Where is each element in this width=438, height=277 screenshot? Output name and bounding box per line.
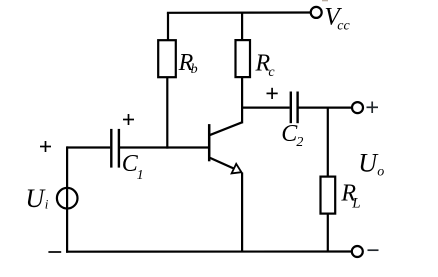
- wire input left from source to C1: [67, 146, 110, 148]
- plus sign C2: [267, 88, 278, 99]
- svg-text:cc: cc: [337, 18, 350, 33]
- wire bottom rail: [66, 250, 352, 252]
- transistor Q1 base bar: [208, 124, 211, 161]
- label Vcc: [324, 3, 350, 33]
- wire Rc top: [241, 13, 243, 40]
- svg-text:b: b: [191, 62, 198, 77]
- wire Rb top: [167, 13, 169, 40]
- transistor Q1 collector diagonal: [209, 122, 242, 135]
- resistor RL: [321, 177, 336, 214]
- label Ui: [25, 184, 48, 213]
- wire RL bottom: [327, 214, 329, 252]
- wire collector node to C2: [242, 106, 290, 108]
- minus sign bottom right: [368, 249, 379, 251]
- svg-text:U: U: [358, 148, 379, 177]
- wire Rc bottom to collector: [241, 77, 243, 123]
- wire RL branch down: [327, 108, 329, 177]
- wire emitter down: [241, 173, 243, 252]
- plus sign output: [367, 102, 379, 114]
- transistor Q1 emitter arrowhead: [232, 164, 242, 174]
- capacitor C2: [291, 92, 298, 124]
- label Rb: [178, 50, 198, 77]
- svg-text:1: 1: [137, 168, 144, 183]
- wire top rail: [167, 11, 311, 14]
- terminal Vcc: [311, 7, 322, 18]
- svg-text:i: i: [45, 196, 49, 211]
- resistor Rc: [236, 40, 251, 77]
- label RL: [340, 181, 360, 212]
- wire left vertical through source: [66, 146, 68, 252]
- label C1: [122, 151, 144, 183]
- minus sign bottom left: [48, 251, 61, 253]
- wire C2 to output terminal: [298, 106, 352, 108]
- label C2: [281, 121, 303, 150]
- capacitor C1: [111, 129, 119, 168]
- resistor Rb: [158, 40, 176, 77]
- label Rc: [255, 51, 276, 80]
- svg-text:U: U: [25, 184, 46, 213]
- svg-text:o: o: [377, 164, 384, 179]
- svg-text:2: 2: [296, 135, 303, 150]
- svg-text:c: c: [268, 65, 275, 80]
- source Ui: [57, 188, 78, 209]
- svg-text:L: L: [351, 195, 360, 211]
- terminal output minus: [352, 246, 363, 257]
- label Uo: [358, 148, 384, 179]
- plus sign C1: [123, 114, 134, 125]
- wire Rb bottom to base node: [166, 77, 168, 148]
- plus sign input: [40, 141, 51, 152]
- artifact cropped text top: [322, 0, 328, 1]
- terminal output plus: [352, 102, 363, 113]
- wire base from C1 to transistor: [119, 146, 208, 148]
- transistor Q1 emitter diagonal: [209, 158, 234, 169]
